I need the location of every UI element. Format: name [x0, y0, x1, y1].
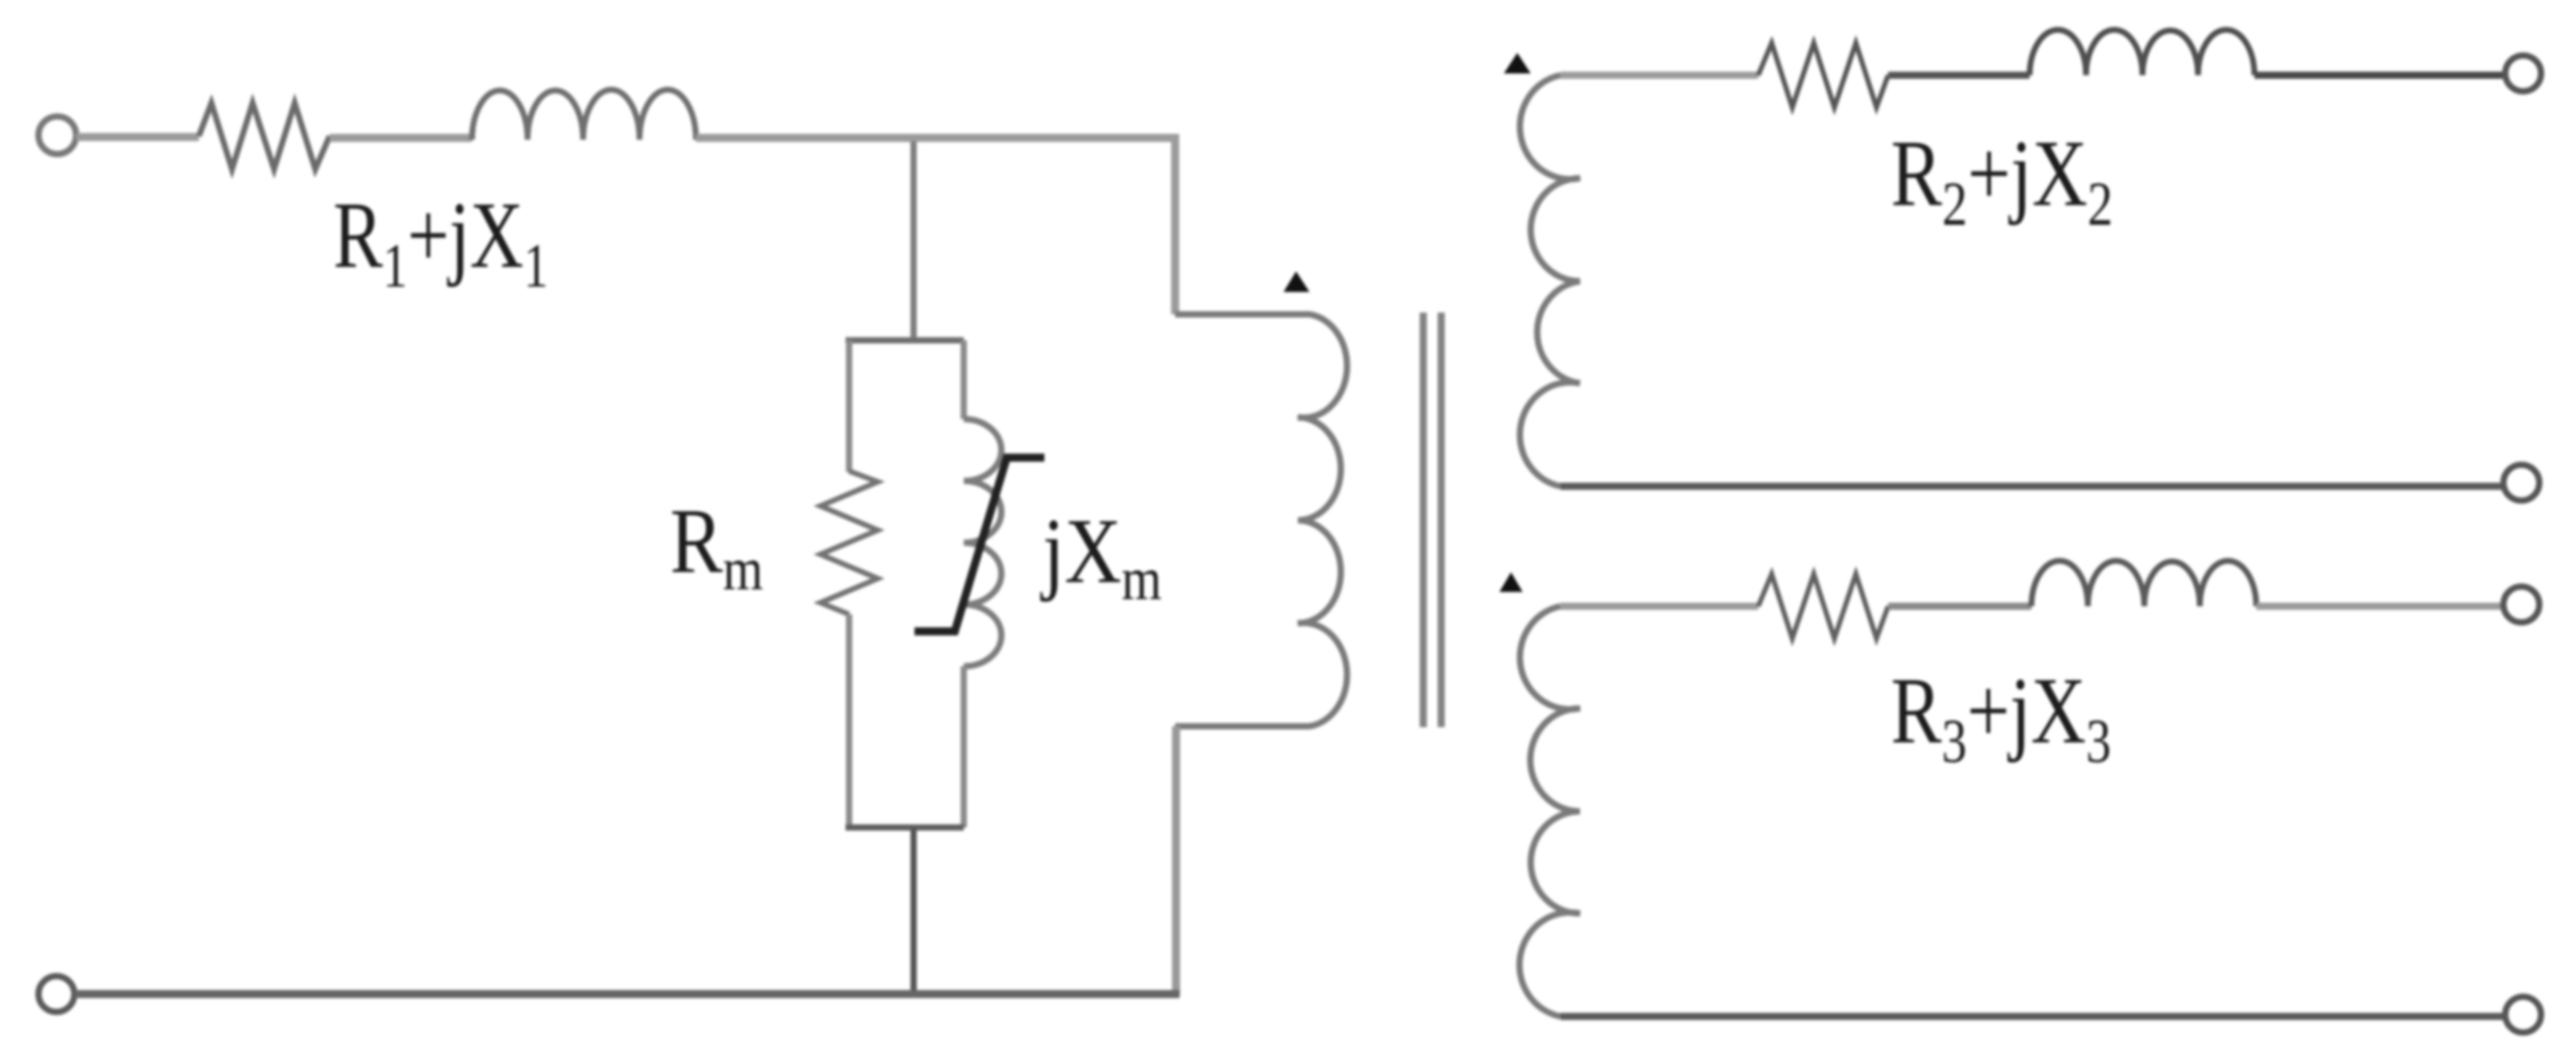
- box left branch upper wire: [846, 340, 853, 472]
- wire R1 to L1: [330, 134, 472, 142]
- bottom rail wire: [75, 990, 1180, 999]
- variable-reactance arrow through jXm: [914, 458, 1044, 631]
- wire node A vertical (box to bottom rail): [911, 827, 917, 995]
- transformer core line 2: [1438, 313, 1445, 727]
- box right branch upper wire: [961, 340, 967, 419]
- svg-text:R1+jX1: R1+jX1: [333, 183, 548, 301]
- parallel box top bar: [846, 338, 964, 344]
- resistor R3: [1758, 574, 1888, 639]
- wire L3 to terminal: [2256, 603, 2504, 610]
- primary winding coil: [1175, 314, 1347, 726]
- wire L1 to primary, corner down: [696, 138, 1175, 314]
- secondary winding 2 coil: [1520, 75, 1580, 486]
- inductor L1: [472, 90, 696, 140]
- terminal T3 bottom: [2505, 997, 2541, 1033]
- wire sec3 bottom: [1560, 1013, 2505, 1020]
- box left branch lower wire: [846, 614, 853, 827]
- dot marker primary (triangle): [1284, 271, 1309, 292]
- wire node A vertical (top rail to box): [911, 141, 917, 340]
- wire R3 to L3: [1888, 603, 2031, 610]
- transformer core line 1: [1420, 313, 1427, 727]
- wire sec2 coil to R2: [1560, 72, 1758, 79]
- box right branch lower wire: [961, 666, 967, 827]
- svg-text:R2+jX2: R2+jX2: [1891, 121, 2113, 239]
- wire input top: [76, 133, 199, 141]
- dot marker secondary 2 (triangle): [1504, 53, 1531, 73]
- inductor jXm coil: [964, 419, 1001, 666]
- resistor R1: [199, 103, 330, 169]
- wire R2 to L2: [1888, 72, 2030, 79]
- terminal T1 bottom-left: [39, 976, 74, 1012]
- wire primary bottom to bottom rail: [1172, 726, 1181, 995]
- terminal T1 top-left: [39, 116, 76, 154]
- terminal T2 top: [2505, 56, 2541, 91]
- resistor Rm: [820, 471, 878, 614]
- wire sec3 coil to R3: [1560, 603, 1758, 610]
- wire L2 to terminal: [2254, 72, 2506, 79]
- box bottom bar: [846, 825, 964, 831]
- svg-text:R3+jX3: R3+jX3: [1891, 658, 2111, 776]
- inductor L2: [2030, 30, 2254, 75]
- resistor R2: [1758, 43, 1888, 107]
- svg-text:jXm: jXm: [1040, 500, 1162, 613]
- inductor L3: [2031, 561, 2256, 606]
- wire sec2 bottom: [1560, 483, 2504, 490]
- svg-text:Rm: Rm: [670, 490, 763, 603]
- terminal T2 bottom: [2503, 465, 2539, 501]
- dot marker secondary 3 (triangle): [1499, 572, 1523, 592]
- terminal T3 top: [2503, 587, 2539, 622]
- secondary winding 3 coil: [1519, 606, 1580, 1016]
